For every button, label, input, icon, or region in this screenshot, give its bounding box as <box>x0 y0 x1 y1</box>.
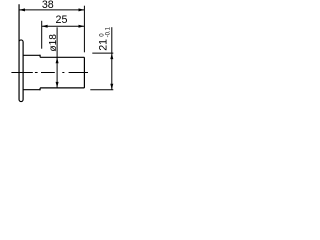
ext line right (38/25) <box>83 6 85 53</box>
text 21 with tolerance (rotated) <box>97 26 111 50</box>
arrowhead 25 left <box>42 25 48 28</box>
dim line dia18 (vertical) <box>56 27 58 88</box>
ext line bottom right <box>90 89 113 91</box>
dimension 21 0/-0.1 <box>90 27 113 89</box>
section 2 top edge <box>40 56 84 58</box>
svg-text:25: 25 <box>56 14 68 26</box>
svg-text:ø18: ø18 <box>48 34 59 52</box>
arrowhead 25 right <box>79 25 85 28</box>
step bottom <box>39 88 41 90</box>
dimension 38 <box>19 6 84 53</box>
arrowhead 21 up <box>110 53 113 59</box>
centerline <box>11 72 88 74</box>
step top <box>39 55 41 58</box>
body right edge <box>83 57 85 88</box>
svg-text:-0.1: -0.1 <box>105 26 111 37</box>
section 1 bottom edge <box>23 89 40 91</box>
dimension 25 <box>42 21 85 49</box>
flange outline (left face, rounded top/bottom caps) merged with 38-dim left extension line <box>19 4 23 101</box>
arrowhead dia18 down <box>56 82 59 88</box>
arrowhead dia18 up <box>56 57 59 63</box>
arrowhead 21 down <box>110 84 113 90</box>
arrowhead 38 left <box>19 8 25 11</box>
ext line left 25 <box>41 21 43 49</box>
ext line top right <box>92 52 113 54</box>
svg-text:21: 21 <box>97 39 109 51</box>
svg-text:38: 38 <box>42 0 54 11</box>
dim line 21 <box>111 27 113 89</box>
body outline: section 1 top edge <box>23 54 40 56</box>
arrowhead 38 right <box>79 8 85 11</box>
section 2 bottom edge <box>40 87 84 89</box>
dim line 38 <box>19 9 84 11</box>
dim line 25 <box>42 25 85 27</box>
